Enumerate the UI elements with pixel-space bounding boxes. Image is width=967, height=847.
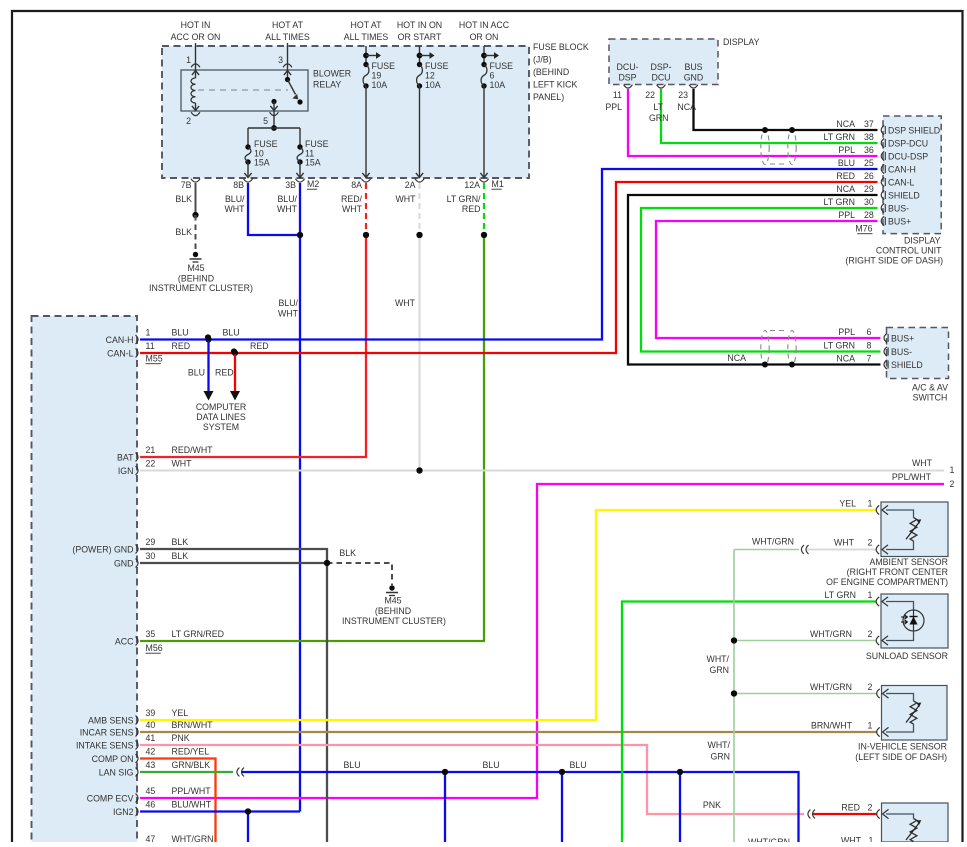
svg-text:BUS+: BUS+ [888,217,911,227]
wire 7B BLK [195,183,197,215]
svg-text:3B: 3B [285,180,296,190]
fuse 10 15A [247,128,249,147]
svg-text:42: 42 [146,747,156,757]
wire LT GRN sunload pin 1 [622,602,877,843]
svg-text:BLU: BLU [482,760,499,770]
svg-text:BUS-: BUS- [891,347,912,357]
svg-text:WHT: WHT [395,194,416,204]
junction dots overlay [297,232,303,238]
svg-text:RED/WHT: RED/WHT [172,445,214,455]
svg-text:11: 11 [613,90,622,100]
svg-text:SHIELD: SHIELD [888,191,920,201]
svg-text:WHT: WHT [277,204,298,214]
svg-text:21: 21 [146,445,156,455]
svg-text:RELAY: RELAY [313,80,341,90]
svg-text:(J/B): (J/B) [533,55,552,65]
svg-text:10A: 10A [372,80,388,90]
wire 8B BLU/WHT [248,183,298,235]
svg-text:22: 22 [146,459,156,469]
svg-text:CONTROL UNIT: CONTROL UNIT [876,246,942,256]
wire 2A WHT dashed segment [419,183,421,232]
svg-text:RED: RED [215,368,234,378]
blower relay box [181,70,308,111]
junction WHT/GRN at sunload [731,637,737,643]
svg-text:WHT: WHT [172,459,193,469]
svg-text:BLU: BLU [223,328,240,338]
svg-text:DISPLAY: DISPLAY [723,37,760,47]
wire 3B BLU/WHT vertical [299,183,301,812]
svg-text:LT GRN/RED: LT GRN/RED [172,629,224,639]
svg-text:2: 2 [868,629,873,639]
svg-text:M76: M76 [855,224,872,234]
svg-text:RED/: RED/ [341,194,363,204]
A/C switch pin 8 BUS- [884,347,887,356]
svg-text:RED: RED [841,803,860,813]
svg-text:1: 1 [186,55,191,65]
svg-text:39: 39 [146,708,156,718]
junction LAN BLU 1 [442,769,448,775]
svg-text:FUSE: FUSE [305,139,329,149]
svg-text:DCU: DCU [651,73,670,83]
svg-text:BRN/WHT: BRN/WHT [172,720,214,730]
svg-text:GRN: GRN [709,665,729,675]
svg-text:FUSE: FUSE [425,61,449,71]
svg-text:WHT/GRN: WHT/GRN [172,834,214,842]
DCU pin 28 BUS+ [881,216,884,225]
svg-text:40: 40 [146,720,156,730]
CAN-L branch arrow to data lines [234,353,236,392]
svg-text:WHT: WHT [912,458,933,468]
wire INCAR SENS BRN/WHT [140,731,877,733]
svg-text:WHT: WHT [395,298,416,308]
wire 2A WHT vertical [419,235,421,471]
svg-text:ALL TIMES: ALL TIMES [344,32,389,42]
svg-text:IGN2: IGN2 [113,807,134,817]
svg-text:1: 1 [868,499,873,509]
svg-text:10A: 10A [425,80,441,90]
svg-text:23: 23 [678,90,688,100]
svg-text:(POWER) GND: (POWER) GND [72,544,133,554]
svg-text:LT GRN/: LT GRN/ [447,194,481,204]
junction IGN2 branch [245,808,251,814]
display box [609,39,718,85]
svg-text:CAN-L: CAN-L [107,348,134,358]
svg-text:WHT: WHT [841,836,862,843]
wire WHT ambient pin 2 [807,549,877,551]
svg-text:BRN/WHT: BRN/WHT [811,721,853,731]
svg-text:28: 28 [864,210,874,220]
wire CAN-L RED [140,182,878,353]
svg-text:45: 45 [146,786,156,796]
svg-text:FUSE: FUSE [372,61,396,71]
svg-text:COMPUTER: COMPUTER [196,402,246,412]
relay coil [195,72,197,79]
relay common contact to pin 5 [271,99,276,104]
svg-text:5: 5 [263,116,268,126]
svg-text:LT GRN: LT GRN [825,590,856,600]
svg-text:BLK: BLK [172,537,189,547]
junction LAN BLU 3 [677,769,683,775]
wire RED to intake sensor [813,813,877,815]
svg-text:(BEHIND: (BEHIND [375,606,411,616]
junction WHT/GRN at in-vehicle [731,690,737,696]
svg-text:BLU/: BLU/ [277,194,297,204]
svg-text:12A: 12A [464,180,480,190]
svg-text:BLOWER: BLOWER [313,69,351,79]
svg-text:NCA: NCA [677,102,696,112]
svg-text:DISPLAY: DISPLAY [904,236,941,246]
svg-text:BLU: BLU [838,158,855,168]
svg-text:PPL: PPL [838,210,855,220]
wire 12A LT GRN/RED to ACC [140,235,484,641]
svg-text:BLU: BLU [343,760,360,770]
junction CAN-H branch [205,336,211,342]
svg-text:PPL/WHT: PPL/WHT [172,786,212,796]
svg-text:PPL: PPL [605,102,622,112]
ambient sensor pin 1 [876,505,879,514]
wire LAN SIG GRN/BLK [140,771,233,773]
svg-text:SHIELD: SHIELD [891,360,923,370]
wire 12A LT GRN/RED dashed segment [483,183,485,232]
svg-text:DCU-DSP: DCU-DSP [888,152,928,162]
svg-text:ALL TIMES: ALL TIMES [265,32,310,42]
svg-text:GRN: GRN [649,113,669,123]
in-vehicle sensor box [882,686,948,741]
svg-text:8: 8 [867,340,872,350]
svg-text:(BEHIND: (BEHIND [533,67,569,77]
svg-text:38: 38 [864,132,874,142]
svg-text:WHT: WHT [342,204,363,214]
relay pin 3 [287,43,289,70]
DCU pin 26 CAN-L [881,177,884,186]
svg-text:IGN: IGN [118,466,134,476]
intake sensor thermistor [886,814,914,819]
junction LAN BLU 2 [559,769,565,775]
shield tap dots at A/C NCA [762,362,768,368]
svg-text:BLK: BLK [339,548,356,558]
svg-text:OF ENGINE COMPARTMENT): OF ENGINE COMPARTMENT) [826,577,948,587]
svg-text:OR ON: OR ON [470,32,499,42]
pin 8B [243,179,252,182]
svg-text:ACC: ACC [115,636,134,646]
svg-text:CAN-H: CAN-H [888,165,916,175]
junction 12A [481,232,487,238]
DCU pin 29 SHIELD [881,190,884,199]
svg-text:BAT: BAT [117,452,134,462]
svg-text:HOT IN ACC: HOT IN ACC [459,20,510,30]
wire NCA display to DCU pin 37 [694,89,878,130]
svg-text:WHT: WHT [278,309,299,319]
svg-text:GND: GND [684,73,704,83]
wire LAN BLU bus [242,772,799,842]
wire BLK dashed to ground [195,215,197,250]
svg-text:15A: 15A [305,158,321,168]
sunload sensor box [881,594,948,648]
A/C and AV switch box [887,328,949,379]
shield tap dots [762,127,768,133]
svg-text:7: 7 [867,353,872,363]
svg-text:AMBIENT SENSOR: AMBIENT SENSOR [869,557,948,567]
svg-text:WHT/: WHT/ [707,654,730,664]
wire BUS- LT GRN DCU to A/C switch [641,208,881,352]
pin 7B [191,179,200,182]
svg-text:CAN-H: CAN-H [106,335,134,345]
svg-text:WHT/GRN: WHT/GRN [810,682,852,692]
wire GND 29 BLK [140,549,327,563]
svg-text:PANEL): PANEL) [533,92,564,102]
wire INTAKE SENS PNK [140,745,804,814]
pin 12A [479,179,488,182]
wire LT GRN display to DCU pin 38 [661,89,878,143]
svg-text:30: 30 [146,551,156,561]
svg-text:26: 26 [864,171,874,181]
svg-text:37: 37 [864,119,874,129]
svg-text:30: 30 [864,197,874,207]
junction 2A [416,232,422,238]
svg-text:15A: 15A [254,158,270,168]
svg-text:RED: RED [250,341,269,351]
svg-text:29: 29 [864,184,874,194]
DCU pin 25 CAN-H [881,164,884,173]
wire BLK dashed to ground M45 [327,563,392,585]
DCU pin 36 DCU-DSP [881,151,884,160]
svg-text:INTAKE SENS: INTAKE SENS [76,740,134,750]
svg-text:YEL: YEL [839,499,856,509]
svg-text:M45: M45 [187,263,204,273]
svg-text:SUNLOAD SENSOR: SUNLOAD SENSOR [866,651,948,661]
svg-text:DATA LINES: DATA LINES [196,412,246,422]
svg-text:FUSE: FUSE [254,139,278,149]
svg-text:BUS+: BUS+ [891,334,914,344]
ground M45 mid (behind instrument cluster) [389,585,394,590]
svg-text:1: 1 [146,328,151,338]
svg-text:WHT: WHT [834,538,855,548]
wire WHT/GRN sunload pin 2 [734,640,877,642]
svg-text:3: 3 [278,55,283,65]
svg-text:M55: M55 [146,354,163,364]
connector pair on PNK/RED wire [808,810,815,819]
svg-text:BLU: BLU [569,760,586,770]
svg-text:INSTRUMENT CLUSTER): INSTRUMENT CLUSTER) [149,283,253,293]
in-vehicle sensor pin 2 [877,689,880,698]
fuse block J/B box [162,46,529,178]
svg-text:GRN: GRN [710,752,730,762]
svg-text:BLK: BLK [172,551,189,561]
svg-text:NCA: NCA [836,353,855,363]
wire AMB SENS YEL [140,510,877,720]
display control unit box [883,116,941,234]
wire 8A RED/WHT dashed segment [365,183,367,232]
svg-text:36: 36 [864,145,874,155]
svg-text:2: 2 [186,116,191,126]
svg-text:8B: 8B [233,180,244,190]
pin 2A [415,179,424,182]
junction 8B into 3B [297,232,303,238]
svg-text:BLU/: BLU/ [278,298,298,308]
svg-text:1: 1 [950,465,955,475]
svg-text:WHT/: WHT/ [708,740,731,750]
svg-text:AMB SENS: AMB SENS [88,715,134,725]
in-vehicle sensor pin 1 [877,727,880,736]
svg-text:7B: 7B [181,180,192,190]
svg-text:DSP: DSP [618,73,636,83]
DCU pin 38 DSP-DCU [881,138,884,147]
svg-text:NCA: NCA [836,184,855,194]
svg-text:12: 12 [425,71,435,81]
svg-text:BLU: BLU [188,368,205,378]
svg-text:COMP ECV: COMP ECV [87,793,134,803]
relay mechanical link [198,89,288,91]
svg-text:2: 2 [868,538,873,548]
svg-text:2: 2 [868,682,873,692]
svg-text:RED: RED [172,341,191,351]
svg-text:BLK: BLK [175,194,192,204]
svg-text:WHT/GRN: WHT/GRN [810,629,852,639]
svg-text:M56: M56 [146,643,163,653]
svg-text:1: 1 [869,836,874,843]
svg-text:BLU/: BLU/ [225,194,245,204]
pin 8A [361,179,370,182]
svg-text:35: 35 [146,629,156,639]
svg-text:11: 11 [146,341,155,351]
splice on BLK wire [192,212,198,218]
svg-text:HOT IN: HOT IN [181,20,211,30]
wire SHIELD NCA DCU to A/C switch [628,195,881,365]
wire PPL display to DCU pin 36 [628,89,878,156]
svg-text:8A: 8A [351,180,362,190]
svg-text:RED: RED [836,171,855,181]
wire GND 30 BLK [140,562,327,564]
in-vehicle sensor thermistor [886,694,914,702]
wire BLK ground vertical [326,563,328,842]
wire 8A RED/WHT to BAT [140,235,366,457]
svg-text:25: 25 [864,158,874,168]
svg-text:6: 6 [490,71,495,81]
fuse 6 10A [483,46,485,65]
svg-text:PPL: PPL [838,327,855,337]
svg-text:(LEFT SIDE OF DASH): (LEFT SIDE OF DASH) [855,752,947,762]
sunload sensor pin 2 [876,636,879,645]
svg-text:BUS-: BUS- [888,204,909,214]
svg-text:43: 43 [146,760,156,770]
svg-text:(RIGHT SIDE OF DASH): (RIGHT SIDE OF DASH) [845,256,943,266]
svg-text:NCA: NCA [836,119,855,129]
A/C switch pin 7 SHIELD [884,360,887,369]
DCU pin 37 DSP SHIELD [881,125,884,134]
svg-text:WHT: WHT [224,204,245,214]
relay pin 2 [191,112,200,115]
wire WHT/GRN in-vehicle pin 2 [734,693,877,695]
relay pin 1 [195,43,197,70]
svg-text:10A: 10A [490,80,506,90]
svg-text:PPL: PPL [838,145,855,155]
svg-text:YEL: YEL [172,708,189,718]
svg-text:1: 1 [868,721,873,731]
svg-text:SWITCH: SWITCH [913,393,948,403]
sunload sensor photodiode [886,602,914,611]
svg-text:FUSE BLOCK: FUSE BLOCK [533,42,589,52]
svg-text:HOT AT: HOT AT [351,20,383,30]
svg-text:PPL/WHT: PPL/WHT [892,472,932,482]
svg-text:6: 6 [867,327,872,337]
wire COMP ON RED/YEL [140,759,216,843]
svg-text:PNK: PNK [703,800,721,810]
svg-text:41: 41 [146,733,156,743]
svg-text:RED: RED [462,204,481,214]
svg-text:46: 46 [146,800,156,810]
svg-text:LEFT KICK: LEFT KICK [533,80,577,90]
svg-text:DSP-DCU: DSP-DCU [888,139,928,149]
svg-text:RED/YEL: RED/YEL [172,747,210,757]
shield loops on display wires [761,130,769,165]
svg-text:OR START: OR START [398,32,442,42]
svg-text:LAN SIG: LAN SIG [99,767,134,777]
svg-text:PNK: PNK [172,733,190,743]
sunload sensor pin 1 [876,597,879,606]
connector pair on LAN wire [237,768,244,777]
svg-text:LT GRN: LT GRN [824,340,855,350]
svg-text:IN-VEHICLE SENSOR: IN-VEHICLE SENSOR [858,742,947,752]
svg-text:GRN/BLK: GRN/BLK [172,760,211,770]
ambient sensor pin 2 [876,545,879,554]
wire IGN WHT [140,470,944,472]
fuse 19 10A [365,46,367,65]
svg-text:FUSE: FUSE [490,61,514,71]
svg-text:1: 1 [868,590,873,600]
svg-text:DSP SHIELD: DSP SHIELD [888,126,940,136]
relay switch arm [287,72,289,80]
svg-text:(RIGHT FRONT CENTER: (RIGHT FRONT CENTER [847,567,948,577]
svg-text:M45: M45 [384,596,401,606]
intake sensor box [882,803,949,842]
svg-text:47: 47 [146,834,156,842]
wire BUS+ PPL DCU to A/C switch [656,221,881,338]
fuse 12 10A [419,46,421,65]
svg-text:DCU-: DCU- [617,62,639,72]
svg-text:ACC OR ON: ACC OR ON [171,32,221,42]
shield loops on A/C switch wires [761,331,769,366]
CAN-H branch arrow to data lines [207,340,209,392]
svg-text:LT GRN: LT GRN [824,132,855,142]
svg-text:HOT IN ON: HOT IN ON [397,20,442,30]
ambient sensor box [881,502,948,557]
svg-text:SYSTEM: SYSTEM [203,422,239,432]
junction 8A [363,232,369,238]
wire WHT/GRN to ambient pin 2 [734,549,799,551]
ground M45 behind instrument cluster [193,252,198,257]
svg-text:BLU: BLU [172,328,189,338]
svg-text:2A: 2A [405,180,416,190]
svg-text:LT GRN: LT GRN [824,197,855,207]
intake sensor pin 2 [877,809,880,818]
svg-text:2: 2 [868,803,873,813]
wire CAN-H BLU [140,169,878,340]
svg-text:CAN-L: CAN-L [888,178,915,188]
svg-text:WHT/GRN: WHT/GRN [748,837,790,842]
svg-text:A/C & AV: A/C & AV [912,383,948,393]
svg-text:INSTRUMENT CLUSTER): INSTRUMENT CLUSTER) [342,616,446,626]
junction GND [324,560,330,566]
svg-text:BLK: BLK [175,227,192,237]
pin 3B [295,179,304,182]
fuse 11 15A [299,128,301,147]
svg-text:INCAR SENS: INCAR SENS [80,727,134,737]
junction pin 5 split [271,125,277,131]
svg-text:BLU/WHT: BLU/WHT [172,800,212,810]
A/C switch pin 6 BUS+ [884,333,887,342]
wire PPL/WHT COMP ECV to right edge [140,484,944,798]
svg-text:DSP-: DSP- [650,62,671,72]
